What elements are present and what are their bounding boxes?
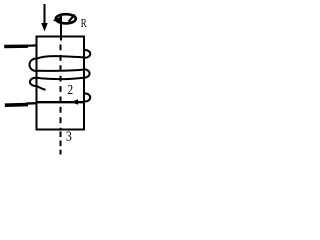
coil bump A (right edge)	[84, 50, 90, 58]
winding strand S2	[37, 70, 85, 71]
adjustment stem	[60, 14, 62, 41]
winding strand S4 stub	[37, 86, 46, 90]
terminal wire 1 (top left)	[4, 45, 28, 49]
rotation arrow (ellipse)	[53, 14, 76, 23]
winding strand S3	[37, 78, 85, 79]
coil bump B (right edge)	[84, 69, 90, 77]
label R	[81, 19, 87, 27]
label 3	[66, 131, 71, 140]
winding strand S1	[37, 56, 85, 59]
axis centerline (dashed)	[60, 45, 62, 130]
terminal wire 2 (bottom, crosses body to bump C)	[5, 103, 28, 107]
coil bump C (right edge)	[84, 93, 90, 101]
press arrow (down)	[41, 4, 48, 32]
coil former body (rectangle)	[37, 37, 85, 130]
wiper arrowhead on wire 2	[71, 99, 78, 104]
coil bump L1 (left edge)	[30, 59, 37, 71]
coil bump L2 (left edge)	[30, 78, 37, 86]
label 2	[68, 85, 73, 94]
